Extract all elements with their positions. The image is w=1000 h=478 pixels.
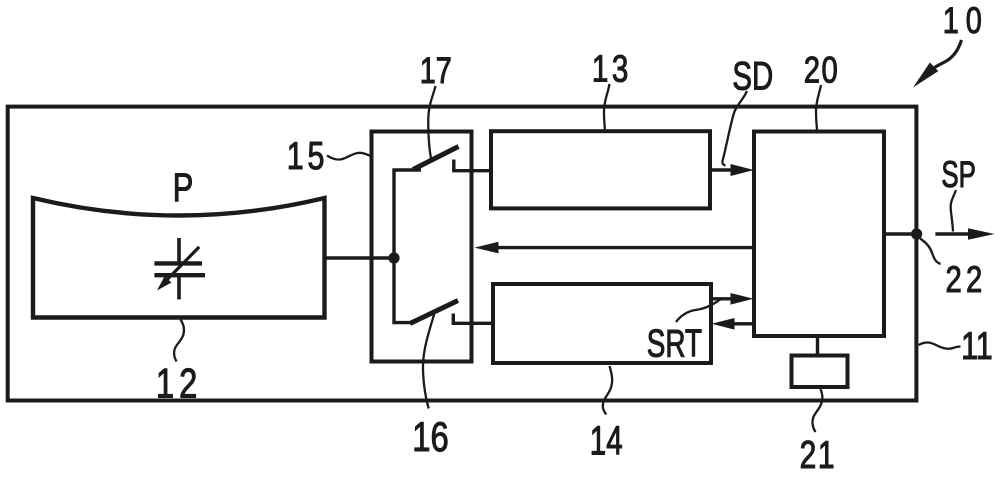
node (junction dot) in switch unit xyxy=(388,252,399,263)
svg-text:14: 14 xyxy=(590,418,623,464)
svg-text:SRT: SRT xyxy=(647,322,702,366)
svg-text:21: 21 xyxy=(800,434,837,473)
box 13 (upper converter block) xyxy=(491,131,710,208)
switch 16 contact and wire to box 14 xyxy=(453,314,493,324)
leader of label 21 xyxy=(812,389,822,432)
leader of label 12 xyxy=(174,320,184,362)
svg-text:10: 10 xyxy=(943,1,989,42)
svg-text:P: P xyxy=(173,166,194,211)
outer box 11 (sensor housing) xyxy=(8,107,917,401)
variable capacitor C (inside P) xyxy=(154,238,205,299)
svg-text:13: 13 xyxy=(592,48,632,90)
wire vertical common line of switches xyxy=(394,170,421,323)
switch 16 blade (lower switch) xyxy=(410,301,458,324)
leader of label 14 xyxy=(603,366,612,415)
arrow SD: box 13 to box 20 xyxy=(710,164,754,176)
element P (pressure sensing element) outline xyxy=(33,198,325,318)
svg-text:20: 20 xyxy=(804,50,840,91)
arrow for label 10 (pointing to outer box) xyxy=(913,40,962,88)
arrow SRT: box 20 to box 14 xyxy=(712,318,755,330)
svg-text:12: 12 xyxy=(156,359,203,406)
leader of label 22 xyxy=(920,239,941,265)
switch 17 contact and wire to box 13 xyxy=(454,160,491,171)
svg-text:11: 11 xyxy=(961,325,993,368)
leader of label 16 xyxy=(423,313,435,409)
leader of label SP xyxy=(951,190,956,232)
svg-text:22: 22 xyxy=(946,260,987,301)
svg-text:15: 15 xyxy=(287,134,329,177)
svg-text:SP: SP xyxy=(941,153,976,195)
svg-text:16: 16 xyxy=(412,413,448,460)
leader of label 13 xyxy=(604,84,610,130)
leader of label 11 xyxy=(919,342,961,348)
node 22 (output junction dot) xyxy=(911,228,922,239)
svg-text:SD: SD xyxy=(732,54,773,98)
box 14 (lower converter block) xyxy=(493,284,711,363)
leader of label SD xyxy=(722,91,747,166)
wire P to switch node xyxy=(325,256,395,259)
svg-text:17: 17 xyxy=(420,51,452,92)
switch 17 blade (upper switch) xyxy=(413,147,459,170)
box 21 (small auxiliary block) xyxy=(792,356,848,388)
leader of label 17 xyxy=(428,86,435,159)
wire box 20 to box 21 xyxy=(816,336,819,356)
switch unit box 15 xyxy=(372,132,472,362)
arrow SP (output signal) xyxy=(935,228,994,240)
leader of label SRT xyxy=(676,299,721,322)
arrow: box 14 to box 20 xyxy=(711,293,753,305)
wire box 20 to output node xyxy=(884,232,916,235)
leader of label 20 xyxy=(816,85,821,130)
box 20 (processing block) xyxy=(754,132,884,337)
feedback arrow: box 20 to switch unit 15 xyxy=(474,242,754,254)
leader of label 15 xyxy=(327,153,371,160)
